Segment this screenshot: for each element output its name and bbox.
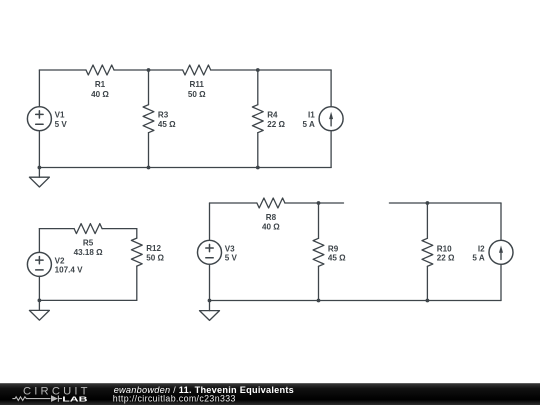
svg-text:R8: R8 (266, 213, 277, 222)
junction R4 bottom (256, 166, 260, 170)
wire V2 bottom rail (39, 299, 136, 301)
svg-text:V2: V2 (55, 256, 65, 265)
junction R10 top node (426, 201, 430, 205)
wire V2 top rail right (102, 228, 137, 230)
ground V2 circuit (29, 310, 49, 320)
wire top rail middle (114, 69, 183, 71)
wire V3 ground stub (209, 301, 211, 311)
junction ground node (38, 166, 42, 170)
wire R10 top lead (426, 203, 428, 238)
wire V3 top lead (209, 203, 211, 240)
svg-text:V1: V1 (55, 111, 65, 120)
resistor R11 (183, 65, 211, 75)
wire V3 bottom lead (209, 264, 211, 300)
wire bottom rail (39, 167, 331, 169)
svg-text:http://circuitlab.com/c23n333: http://circuitlab.com/c23n333 (113, 393, 236, 403)
svg-text:R11: R11 (189, 80, 204, 89)
svg-text:I2: I2 (478, 244, 485, 253)
wire V1 top lead (38, 70, 40, 107)
wire ground stub (38, 168, 40, 178)
wire R10 bottom lead (426, 266, 428, 300)
wire top rail left (39, 69, 86, 71)
svg-text:5 V: 5 V (225, 254, 238, 263)
wire open terminal left (319, 202, 344, 204)
wire V1 bottom lead (38, 131, 40, 168)
wire R4 top lead (257, 70, 259, 105)
wire R9 bottom lead (318, 266, 320, 300)
junction R10 bottom (426, 299, 430, 303)
svg-text:V3: V3 (225, 244, 235, 253)
wire I1 top lead (330, 70, 332, 107)
wire V3 top rail left (210, 202, 257, 204)
wire R12 bottom lead (136, 266, 138, 300)
svg-text:22 Ω: 22 Ω (267, 120, 285, 129)
resistor R8 (257, 198, 285, 208)
wire V2 bottom lead (38, 276, 40, 300)
svg-text:R4: R4 (267, 111, 278, 120)
resistor R9 (313, 238, 324, 266)
svg-text:I1: I1 (308, 111, 315, 120)
junction V3 ground node (208, 299, 212, 303)
svg-text:107.4 V: 107.4 V (55, 266, 84, 275)
junction node R1-R11-R3 (147, 68, 151, 72)
voltage source V1 (27, 107, 51, 131)
svg-text:43.18 Ω: 43.18 Ω (74, 248, 104, 257)
CircuitLab logo symbol (resistor + diode wire) (12, 396, 62, 402)
junction V2 ground node (38, 299, 42, 303)
wire R4 bottom lead (257, 133, 259, 168)
svg-text:R5: R5 (83, 238, 94, 247)
svg-text:R10: R10 (437, 244, 452, 253)
svg-text:5 V: 5 V (55, 120, 68, 129)
wire R3 bottom lead (148, 133, 150, 168)
wire R12 top lead (136, 229, 138, 239)
voltage source V3 (198, 240, 222, 264)
resistor R10 (422, 238, 433, 266)
resistor R3 (143, 105, 154, 133)
svg-text:LAB: LAB (62, 395, 88, 404)
svg-text:R9: R9 (328, 244, 339, 253)
svg-text:50 Ω: 50 Ω (146, 254, 164, 263)
wire open terminal right rail (389, 202, 501, 204)
svg-text:45 Ω: 45 Ω (328, 254, 346, 263)
svg-text:22 Ω: 22 Ω (437, 254, 455, 263)
voltage source V2 (27, 252, 51, 276)
current source I1 (319, 107, 343, 131)
wire V2 top lead (38, 229, 40, 253)
wire R9 top lead (318, 203, 320, 238)
wire V2 top rail left (39, 228, 74, 230)
current source I2 (489, 240, 513, 264)
junction R8-R9 node (317, 201, 321, 205)
junction R3 bottom (147, 166, 151, 170)
svg-text:40 Ω: 40 Ω (91, 90, 109, 99)
resistor R12 (131, 238, 142, 266)
svg-text:R1: R1 (95, 80, 106, 89)
wire I2 top lead (500, 203, 502, 240)
wire top rail right (211, 69, 331, 71)
resistor R5 (74, 224, 102, 234)
svg-text:40 Ω: 40 Ω (262, 223, 280, 232)
wire bottom rail right circuit (210, 300, 502, 302)
wire V2 ground stub (38, 300, 40, 310)
wire I1 bottom lead (330, 131, 332, 168)
wire R8 to R9 node (285, 202, 319, 204)
wire R3 top lead (148, 70, 150, 105)
junction R9 bottom (317, 299, 321, 303)
resistor R4 (252, 105, 263, 133)
svg-text:50 Ω: 50 Ω (188, 90, 206, 99)
svg-text:5 A: 5 A (303, 120, 315, 129)
svg-text:5 A: 5 A (472, 254, 484, 263)
svg-text:R12: R12 (146, 244, 161, 253)
svg-text:45 Ω: 45 Ω (158, 120, 176, 129)
wire I2 bottom lead (500, 264, 502, 300)
ground V3 circuit (200, 311, 220, 321)
junction node R11-R4-I1 (256, 68, 260, 72)
svg-text:R3: R3 (158, 111, 169, 120)
resistor R1 (86, 65, 114, 75)
ground top circuit (29, 177, 49, 187)
